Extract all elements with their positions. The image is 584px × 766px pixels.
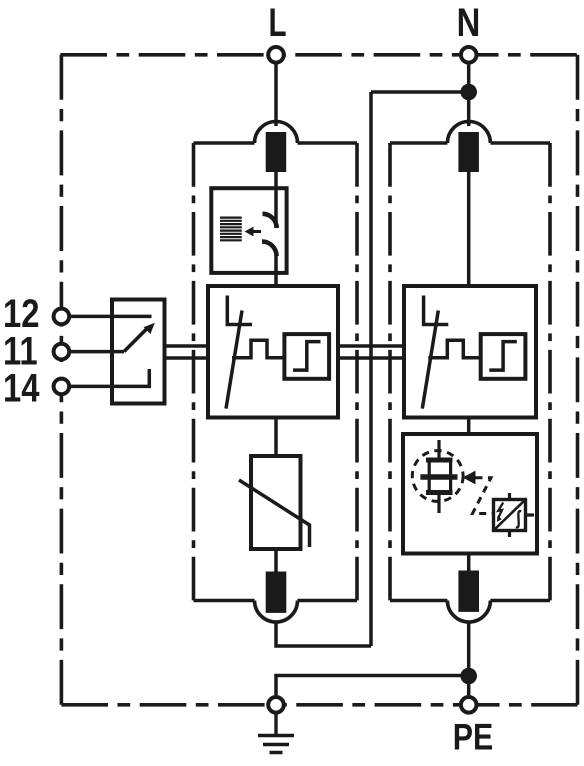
left module bottom edge [194, 599, 358, 603]
terminal block top-left (black) [266, 132, 287, 172]
wire trigger box to main gap box [274, 256, 278, 286]
svg-text:14: 14 [3, 365, 40, 410]
wire bottom-left terminal down and to N riser [276, 622, 371, 646]
trigger device box [211, 188, 286, 273]
wire bottom-right terminal to PE junction [467, 622, 471, 695]
right module boundary left edge [388, 143, 392, 601]
signalling bus line lower [165, 356, 405, 359]
GDT bottom electrode bar [426, 490, 453, 495]
GDT top electrode bar [426, 458, 453, 463]
dashed circle around GDT [412, 451, 463, 502]
trigger pulse waveform [232, 340, 284, 357]
earth symbol [258, 715, 294, 753]
wire from 11 [69, 350, 124, 354]
outer device border bottom [61, 703, 577, 707]
wire L terminal down [274, 55, 278, 126]
terminal arc top-left [255, 122, 298, 144]
label 14 [3, 365, 40, 410]
terminal circle 14 [54, 379, 70, 395]
changeover contact box [112, 300, 165, 404]
wire main box to varistor [274, 418, 278, 457]
contact blade [124, 328, 148, 352]
GDT bottom pin [437, 493, 440, 514]
step glyph right [489, 342, 517, 371]
lightning glyph [498, 503, 503, 518]
label 11 [3, 329, 38, 374]
GDT tube sides [429, 460, 450, 493]
junction dot at N [460, 84, 477, 101]
arc-splitter hatch plates [220, 218, 242, 241]
step glyph [293, 342, 321, 371]
label 12 [3, 291, 39, 336]
trigger arrow to GDT [463, 471, 476, 485]
right module top edge [390, 141, 550, 145]
svg-text:L: L [268, 1, 286, 45]
dashed trigger link [473, 478, 494, 514]
terminal arc top-right [447, 122, 490, 144]
contact blade arrowhead [144, 323, 155, 334]
arrow into plates [252, 230, 261, 233]
wire varistor to bottom terminal [274, 549, 278, 572]
left module boundary right edge [355, 143, 359, 601]
ignition box diagonal [494, 500, 526, 531]
varistor body [251, 456, 301, 549]
left module boundary (dash-dot) left edge [192, 143, 196, 601]
integral glyph [516, 511, 522, 527]
left module top edge [194, 141, 358, 145]
left spark-gap main box [208, 286, 338, 418]
terminal block top-right (black) [458, 132, 479, 172]
upper horn electrode [263, 214, 277, 228]
gas discharge tube outer box [403, 434, 537, 554]
outer device border right [576, 55, 580, 705]
label L [268, 1, 286, 45]
trigger threshold box [284, 334, 329, 379]
right module bottom edge [390, 599, 550, 603]
remote contact: wire from 12 [69, 315, 152, 319]
disconnector blade [226, 311, 242, 409]
ignition box pins [510, 493, 535, 537]
gap in border between 11 and 14 [58, 362, 66, 378]
wire terminal to right main box [467, 172, 471, 286]
terminal circle L [268, 47, 284, 63]
trigger pulse waveform right [428, 340, 480, 357]
GDT middle electrode bar [420, 474, 457, 479]
disconnector blade right [422, 311, 438, 409]
terminal circle earth [268, 697, 284, 713]
junction dot at PE [460, 668, 477, 685]
terminal circle 12 [54, 309, 70, 325]
trigger threshold box right [481, 334, 526, 379]
right spark-gap main box [404, 286, 536, 418]
wire from 14 with bend [69, 369, 149, 386]
terminal arc bottom-left [255, 601, 298, 623]
terminal circle 11 [54, 344, 70, 360]
varistor diagonal [239, 480, 310, 547]
svg-text:N: N [457, 0, 481, 45]
terminal arc bottom-right [447, 601, 490, 623]
earth link wire [276, 676, 469, 696]
GDT top pin [437, 440, 440, 460]
terminal block bottom-right (black) [458, 571, 479, 612]
wire right main box to gas tube box [467, 418, 471, 435]
wire riser to N junction [371, 90, 469, 94]
wire N terminal down [467, 55, 471, 126]
signalling bus line upper [165, 344, 405, 347]
label PE [453, 717, 493, 759]
disconnector fixed contact [227, 296, 252, 325]
wire terminal to trigger box [274, 172, 278, 228]
disconnector fixed contact right [424, 296, 449, 325]
N riser wire [369, 92, 373, 646]
ignition box [494, 500, 526, 531]
outer device border left [60, 55, 64, 705]
terminal circle N [461, 47, 477, 63]
terminal block bottom-left (black) [266, 572, 287, 613]
wire gas tube box to bottom terminal [467, 554, 471, 572]
label N [457, 0, 481, 45]
svg-text:PE: PE [453, 717, 493, 759]
right module boundary right edge [548, 143, 552, 601]
lower horn electrode [262, 242, 277, 257]
outer device border (dash-dot) top [60, 53, 577, 57]
terminal circle PE [461, 697, 477, 713]
